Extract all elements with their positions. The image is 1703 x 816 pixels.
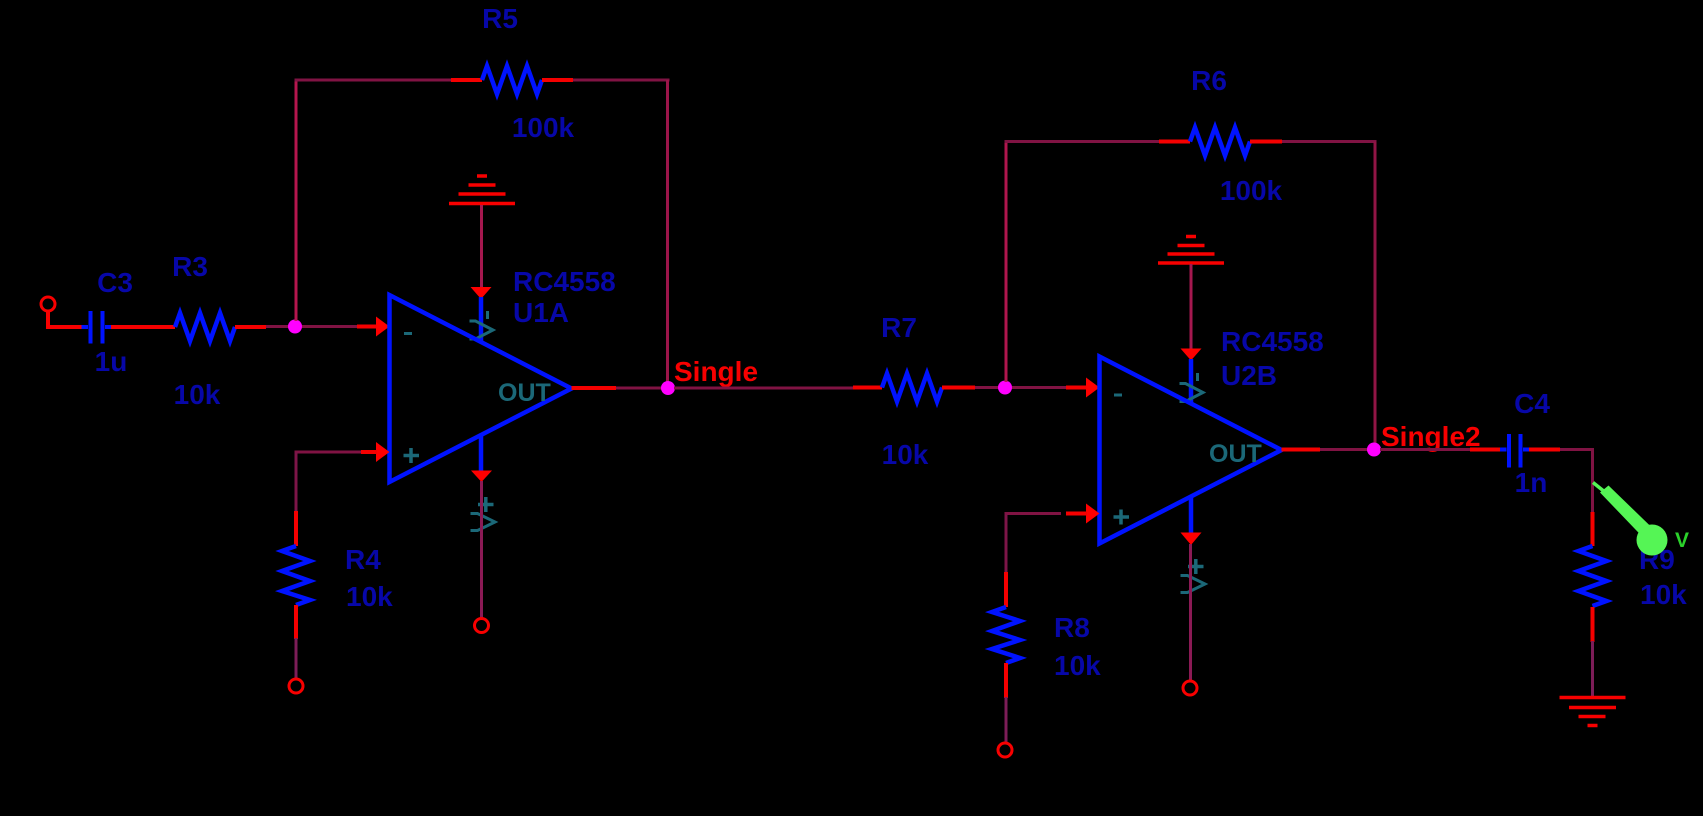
svg-text:RC4558: RC4558 bbox=[1221, 326, 1324, 357]
pin arrow U2B minus input bbox=[1086, 378, 1100, 398]
capacitor C4 bbox=[1500, 434, 1530, 468]
terminal below R4 bbox=[289, 679, 303, 693]
pin stub U2B V- bbox=[1189, 359, 1194, 404]
wire plus input horizontal bbox=[295, 451, 362, 454]
svg-text:10k: 10k bbox=[174, 379, 221, 410]
pin arrow U2B plus input bbox=[1086, 504, 1100, 524]
wire R9 lead top bbox=[1591, 512, 1595, 546]
wire R4 to terminal bbox=[295, 638, 298, 679]
power chevron U1A top bbox=[470, 321, 494, 339]
wire R3 lead right bbox=[235, 325, 266, 329]
svg-text:U2B: U2B bbox=[1221, 360, 1277, 391]
ground GND3 bbox=[1560, 698, 1626, 726]
node Single2 junction dot bbox=[1367, 443, 1381, 457]
wire R7 to node B bbox=[975, 386, 1070, 389]
wire U1A output lead bbox=[572, 386, 617, 390]
svg-text:OUT: OUT bbox=[498, 379, 551, 407]
wire R6 lead right bbox=[1250, 140, 1282, 144]
resistor R9 bbox=[1579, 546, 1607, 606]
wire feedback left vertical bbox=[295, 80, 298, 321]
wire R3 to node A bbox=[266, 325, 360, 328]
wire feedback right vertical bbox=[666, 80, 669, 384]
wire GND1 to U1A V- pin bbox=[480, 205, 483, 288]
wire feedback2 top right bbox=[1282, 140, 1377, 143]
wire R8 lead bottom bbox=[1004, 663, 1008, 698]
svg-text:C4: C4 bbox=[1514, 388, 1550, 419]
resistor R3 bbox=[175, 313, 235, 341]
svg-text:R6: R6 bbox=[1191, 65, 1227, 96]
V- polarity mark U1A bbox=[486, 311, 489, 319]
pin arrow U1A plus input bbox=[376, 442, 390, 462]
wire red segment to U1A plus pin bbox=[361, 450, 377, 454]
resistor R8 bbox=[992, 607, 1020, 663]
wire red segment to U2B plus pin bbox=[1066, 512, 1087, 516]
wire feedback2 left vertical bbox=[1005, 142, 1008, 383]
V- polarity mark U2B bbox=[1196, 373, 1199, 381]
wire Single2 to C4 bbox=[1380, 448, 1471, 451]
ground GND2 above U2B bbox=[1158, 237, 1224, 264]
svg-text:10k: 10k bbox=[346, 581, 393, 612]
plus sign U1A bbox=[404, 448, 420, 463]
svg-text:Single: Single bbox=[674, 356, 758, 387]
voltage probe V handle circle bbox=[1637, 525, 1668, 556]
wire plus input horizontal U2B bbox=[1005, 512, 1062, 515]
wire C4 to R9 corner bbox=[1560, 448, 1594, 514]
wire U2B output lead bbox=[1282, 448, 1321, 452]
wire C4 lead right bbox=[1529, 448, 1560, 452]
wire R6 lead left bbox=[1159, 140, 1190, 144]
resistor R4 bbox=[282, 546, 310, 605]
resistor R5 bbox=[482, 66, 542, 94]
wire plus input vertical to R4 bbox=[295, 452, 298, 513]
svg-text:RC4558: RC4558 bbox=[513, 266, 616, 297]
wire R5 lead left bbox=[451, 78, 482, 82]
ground GND1 above U1A bbox=[449, 176, 515, 204]
svg-text:OUT: OUT bbox=[1209, 440, 1262, 468]
input terminal IN bbox=[41, 297, 55, 311]
wire C3 to R3 (lead) bbox=[111, 325, 175, 329]
wire R7 lead right bbox=[942, 386, 975, 390]
wire red segment to U2B minus pin bbox=[1066, 386, 1087, 390]
plus sign U2B bbox=[1114, 510, 1130, 525]
node A junction dot bbox=[288, 320, 302, 334]
pin arrow U1A V- (down) bbox=[471, 287, 492, 299]
wire R8 lead top bbox=[1004, 572, 1008, 607]
wire R9 lead bottom bbox=[1591, 607, 1595, 642]
terminal U1A V+ bbox=[475, 619, 489, 633]
wire U1A V+ pin to terminal bbox=[480, 481, 483, 618]
wire U2B output to node Single2 bbox=[1320, 448, 1368, 451]
pin arrow U2B V+ (down) bbox=[1181, 533, 1202, 546]
svg-text:R7: R7 bbox=[881, 312, 917, 343]
node Single junction dot bbox=[661, 381, 675, 395]
svg-text:U1A: U1A bbox=[513, 297, 569, 328]
svg-text:1n: 1n bbox=[1515, 467, 1548, 498]
svg-text:R8: R8 bbox=[1054, 612, 1090, 643]
wire R7 lead left bbox=[853, 386, 882, 390]
svg-text:R4: R4 bbox=[345, 544, 381, 575]
wire feedback2 top left bbox=[1005, 140, 1160, 143]
svg-text:Single2: Single2 bbox=[1381, 421, 1481, 452]
capacitor C3 bbox=[82, 311, 112, 344]
pin arrow U2B V- (down) bbox=[1181, 349, 1202, 361]
svg-text:V: V bbox=[1675, 529, 1689, 552]
svg-text:1u: 1u bbox=[95, 346, 128, 377]
wire R4 lead top bbox=[294, 511, 298, 546]
resistor R7 bbox=[882, 374, 942, 402]
power chevron U2B bottom bbox=[1181, 576, 1206, 593]
svg-text:10k: 10k bbox=[882, 439, 929, 470]
voltage probe V needle bbox=[1593, 483, 1608, 495]
wire R4 lead bottom bbox=[294, 605, 298, 639]
minus sign U2B bbox=[1114, 394, 1122, 397]
svg-text:100k: 100k bbox=[512, 112, 575, 143]
wire Single to R7 bbox=[674, 387, 854, 390]
resistor R6 bbox=[1190, 128, 1250, 156]
minus sign U1A bbox=[404, 332, 412, 335]
wire plus input vertical to R8 bbox=[1005, 514, 1008, 575]
svg-text:C3: C3 bbox=[97, 267, 133, 298]
pin stub U1A V- bbox=[479, 297, 484, 342]
node B junction dot bbox=[998, 381, 1012, 395]
pin arrow U1A minus input bbox=[376, 317, 390, 337]
wire R8 to terminal bbox=[1005, 697, 1008, 743]
wire C4 lead left bbox=[1470, 448, 1501, 452]
wire R9 to GND3 bbox=[1591, 641, 1594, 696]
wire U2B V+ pin to terminal bbox=[1189, 544, 1192, 681]
terminal below R8 bbox=[998, 743, 1012, 757]
op-amp U2B bbox=[1100, 357, 1282, 544]
wire GND2 to U2B V- pin bbox=[1190, 264, 1193, 350]
svg-text:R5: R5 bbox=[482, 3, 518, 34]
V+ plus mark U1A bbox=[478, 497, 494, 512]
svg-text:R3: R3 bbox=[172, 251, 208, 282]
wire R5 lead right bbox=[542, 78, 573, 82]
wire red segment to U1A minus pin bbox=[357, 325, 377, 329]
V+ plus mark U2B bbox=[1188, 559, 1204, 574]
svg-text:10k: 10k bbox=[1640, 579, 1687, 610]
svg-text:10k: 10k bbox=[1054, 650, 1101, 681]
power chevron U1A bottom bbox=[471, 514, 496, 531]
pin arrow U1A V+ (down) bbox=[471, 471, 492, 483]
wire feedback top right bbox=[573, 79, 670, 82]
wire input terminal to C3 bbox=[48, 311, 82, 327]
power chevron U2B top bbox=[1180, 384, 1204, 402]
pin stub U1A V+ bbox=[479, 435, 484, 471]
svg-text:100k: 100k bbox=[1220, 175, 1283, 206]
wire feedback2 right vertical bbox=[1374, 142, 1377, 446]
pin stub U2B V+ bbox=[1189, 496, 1194, 533]
wire feedback top left bbox=[295, 79, 452, 82]
terminal U2B V+ bbox=[1183, 681, 1197, 695]
op-amp U1A bbox=[390, 295, 572, 482]
wire U1A output to node Single bbox=[616, 387, 662, 390]
